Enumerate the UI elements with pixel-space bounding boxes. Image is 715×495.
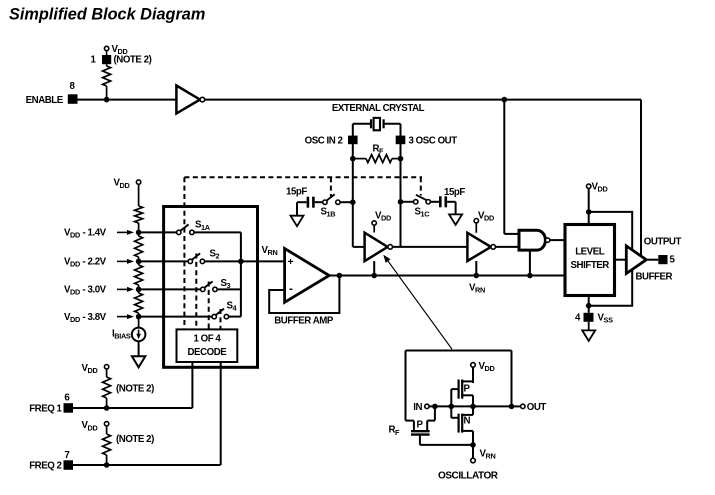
resistor R2 freq1 <box>103 377 111 398</box>
inverter U3 <box>467 233 491 261</box>
pin 2 square (OSC IN) <box>348 136 358 145</box>
svg-text:OSC IN 2: OSC IN 2 <box>305 136 343 147</box>
node osc in / RF <box>350 156 356 162</box>
wire inverter1 VRN pin <box>373 261 375 275</box>
VDD terminal freq1 <box>104 365 108 369</box>
svg-text:P: P <box>464 383 471 394</box>
transistor Q1 PMOS <box>458 380 460 399</box>
wire freq2 <box>73 464 221 466</box>
VDD terminal for R1 pullup <box>104 46 108 50</box>
node tap 3.0V <box>136 287 142 293</box>
arrow tap1 <box>117 231 128 233</box>
wire tap2 to S2 <box>139 260 189 262</box>
svg-text:DECODE: DECODE <box>188 347 228 358</box>
wire tap4 to S4 <box>139 316 212 318</box>
wire inverter1 out <box>393 246 468 248</box>
pin 8 square <box>68 94 78 104</box>
wire enable top rail <box>205 99 641 101</box>
pin 6 square <box>64 403 74 413</box>
ground (left 15pF) <box>291 216 304 227</box>
switch bank box <box>164 207 258 368</box>
node osc out / RF <box>398 156 404 162</box>
capacitor C1 15pF <box>307 197 310 208</box>
node S1B / osc in <box>350 199 356 205</box>
wire S1B to osc in <box>340 201 353 203</box>
wire level shifter to output buffer <box>615 259 627 261</box>
svg-text:OSCILLATOR: OSCILLATOR <box>438 470 499 481</box>
VDD terminal inverter2 <box>474 219 478 223</box>
svg-text:N: N <box>464 415 471 426</box>
wire enable drop to NAND <box>502 97 508 103</box>
dashed column S4 <box>220 309 222 329</box>
buffer U5 (output, tri-state) <box>626 246 646 274</box>
wire nand out <box>550 239 565 241</box>
wire output <box>646 259 658 261</box>
node inverter2 VRN <box>474 273 480 279</box>
wire divider segments <box>138 184 140 206</box>
wire inverter2 VRN pin <box>475 261 477 276</box>
wire tap1 to S1A <box>139 231 177 233</box>
ground (VSS) <box>582 330 595 341</box>
VDD terminal divider <box>136 180 140 184</box>
svg-text:-: - <box>289 283 293 295</box>
svg-text:- 3.0V: - 3.0V <box>83 284 107 295</box>
svg-text:(NOTE 2): (NOTE 2) <box>116 434 154 445</box>
node freq1 pullup <box>104 405 110 411</box>
svg-text:IN: IN <box>413 402 422 413</box>
svg-text:15pF: 15pF <box>286 187 307 198</box>
arrow tap2 <box>117 260 128 262</box>
wire to OUT terminal <box>512 405 521 407</box>
wire decode to freq1 <box>191 362 193 408</box>
inverter U2 (oscillator) <box>365 233 388 261</box>
switch S2 <box>188 259 192 263</box>
wire buffer amp output rail <box>329 275 565 277</box>
wire decode to freq2 <box>220 362 222 465</box>
wire osc out vertical <box>400 124 402 247</box>
svg-text:(NOTE 2): (NOTE 2) <box>116 384 154 395</box>
node inverter1 VRN <box>371 273 377 279</box>
pin 3 square (OSC OUT) <box>396 136 406 145</box>
wire gate vertical <box>450 389 452 418</box>
wire level shifter VSS <box>588 296 590 313</box>
svg-text:FREQ 1: FREQ 1 <box>29 403 62 414</box>
wire oscillator feedback left <box>405 351 407 421</box>
wire enable drop to output buffer <box>640 100 642 256</box>
svg-text:(NOTE 2): (NOTE 2) <box>114 55 152 66</box>
switch S4 <box>212 314 216 318</box>
node level shifter VSS <box>586 303 592 309</box>
wire output buffer supply loop <box>589 212 633 306</box>
VDD terminal osc inverter <box>372 221 376 225</box>
transistor Q3 PMOS (RF) <box>434 406 436 420</box>
switch S3 <box>201 287 205 291</box>
dashed drop to S1B <box>330 177 332 196</box>
node switch bus / VRN <box>238 259 244 265</box>
wire osc in vertical <box>352 124 354 247</box>
wire S3 to bus <box>217 288 241 290</box>
dashed control bus horizontal <box>184 176 422 178</box>
arrow oscillator detail callout <box>385 257 452 349</box>
ground (right 15pF) <box>449 214 462 225</box>
node oscillator VRN <box>470 442 476 448</box>
transistor Q2 NMOS <box>458 414 460 433</box>
wire vss to ground <box>588 322 590 331</box>
wire switch output bus vertical <box>240 232 242 316</box>
wire S4 to bus <box>229 316 241 318</box>
wire cap to ground right <box>447 201 456 203</box>
switch S1B <box>323 200 327 204</box>
crystal Y1 <box>370 119 372 128</box>
svg-text:P: P <box>417 419 424 430</box>
node freq2 pullup <box>104 462 110 468</box>
svg-text:EXTERNAL CRYSTAL: EXTERNAL CRYSTAL <box>332 103 425 114</box>
node tap 3.8V <box>136 314 142 320</box>
resistor R3 freq2 <box>103 434 111 455</box>
inverter U1 (enable buffer) <box>176 86 200 114</box>
node tap 1.4V <box>136 230 142 236</box>
VDD terminal level shifter <box>587 184 591 188</box>
resistor R1 pullup <box>106 64 108 66</box>
dashed drop to S1C <box>420 177 422 195</box>
node S1C / osc out <box>398 199 404 205</box>
wire ibias to ground <box>138 341 140 356</box>
svg-text:+: + <box>288 256 294 268</box>
IN terminal <box>425 404 429 408</box>
wire ENABLE net <box>78 99 177 101</box>
node rf drain <box>432 404 438 410</box>
wire oscillator feedback right <box>511 351 513 407</box>
svg-text:3 OSC OUT: 3 OSC OUT <box>409 136 458 147</box>
svg-text:OUT: OUT <box>527 402 547 413</box>
svg-text:- 3.8V: - 3.8V <box>83 312 107 323</box>
svg-text:BUFFER: BUFFER <box>636 272 673 283</box>
svg-text:7: 7 <box>64 450 69 461</box>
node enable junction at pullup <box>104 97 110 103</box>
arrow tap3 <box>117 288 128 290</box>
pin 5 square <box>658 255 667 264</box>
VDD terminal freq2 <box>104 422 108 426</box>
svg-text:OUTPUT: OUTPUT <box>644 236 682 247</box>
node pmos drain <box>470 404 476 410</box>
wire crystal top left <box>353 123 371 125</box>
wire cap left to ground <box>297 201 306 203</box>
wire buffer feedback <box>269 276 339 314</box>
wire crystal top right <box>384 123 401 125</box>
node level shifter VDD <box>586 209 592 215</box>
svg-text:FREQ 2: FREQ 2 <box>29 460 61 471</box>
svg-text:ENABLE: ENABLE <box>26 95 64 106</box>
op-amp BUFFER AMP <box>285 249 330 303</box>
node feedback tap <box>337 273 343 279</box>
pin 4 square <box>584 313 594 322</box>
svg-text:Simplified Block Diagram: Simplified Block Diagram <box>9 6 205 24</box>
dashed column S3 <box>208 282 210 330</box>
wire S1C to cap <box>430 201 439 203</box>
wire oscillator input rail <box>429 405 511 407</box>
wire freq1 <box>73 407 192 409</box>
node feedback / out <box>509 404 515 410</box>
capacitor C2 15pF <box>439 196 442 207</box>
node gate / input <box>449 404 455 410</box>
ground (divider) <box>132 356 145 367</box>
wire oscillator feedback top <box>406 350 512 352</box>
wire S2 to buffer amp (VRN) <box>205 260 285 262</box>
wire osc out to S1C <box>401 201 414 203</box>
wire cap to S1B <box>315 201 323 203</box>
node tap 2.2V <box>136 259 142 265</box>
resistor RF <box>353 158 366 160</box>
svg-text:- 2.2V: - 2.2V <box>83 256 107 267</box>
switch S1A <box>177 230 181 234</box>
arrow tap4 <box>117 316 128 318</box>
wire oscillator VRN rail <box>420 444 473 446</box>
nand gate U4 <box>519 230 545 250</box>
decoder box 1 OF 4 DECODE <box>177 329 238 362</box>
svg-text:LEVEL: LEVEL <box>575 247 605 258</box>
dashed column S2 <box>195 254 197 330</box>
pin 1 square <box>102 55 111 64</box>
wire inverter2 out to NAND <box>496 246 520 248</box>
svg-text:- 1.4V: - 1.4V <box>83 227 107 238</box>
pin 7 square <box>64 460 74 470</box>
wire osc in to inverter <box>353 246 365 248</box>
wire S1A to bus <box>194 231 241 233</box>
svg-text:SHIFTER: SHIFTER <box>571 260 610 271</box>
svg-text:BUFFER AMP: BUFFER AMP <box>274 315 334 326</box>
dashed column S1A <box>183 177 185 329</box>
level shifter box <box>565 225 615 296</box>
svg-text:1 OF 4: 1 OF 4 <box>193 334 221 345</box>
switch S1C <box>414 200 418 204</box>
svg-text:15pF: 15pF <box>444 187 465 198</box>
OUT terminal <box>521 404 525 408</box>
wire tap3 to S3 <box>139 288 201 290</box>
VRN terminal oscillator <box>472 445 474 458</box>
wire nand VRN pin <box>529 250 531 275</box>
node nand VRN <box>527 273 533 279</box>
VDD terminal oscillator detail <box>471 363 476 368</box>
current source IBIAS <box>132 328 146 342</box>
